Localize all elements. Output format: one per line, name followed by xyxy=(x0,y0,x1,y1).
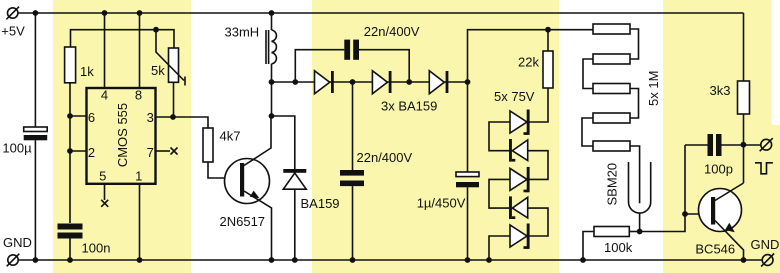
diode D2 BA159 xyxy=(372,71,391,94)
wire 5k bottom to pin3 xyxy=(173,82,175,117)
node D1-D2 xyxy=(350,79,356,85)
svg-text:3: 3 xyxy=(147,110,154,125)
wire pin8 xyxy=(139,13,141,88)
svg-text:+5V: +5V xyxy=(1,23,25,38)
capacitor C 100p xyxy=(708,134,722,156)
wire HV diode line xyxy=(272,81,468,83)
highlight band 1 (555 section) xyxy=(53,0,191,273)
resistor R7 1M xyxy=(593,54,630,64)
wire pin7 stub xyxy=(156,150,171,152)
terminal output xyxy=(760,138,773,151)
capacitor C 22n/400V smoothing xyxy=(340,170,364,186)
wire 22k bottom / zener right rail top xyxy=(530,88,549,122)
capacitor C 100n xyxy=(58,224,83,239)
zener D9 75V xyxy=(510,224,530,249)
node bottom zener rail xyxy=(486,257,492,263)
wire R9-R10 left link xyxy=(582,118,593,146)
wire pin1 xyxy=(139,184,141,260)
wire 100u top lead xyxy=(34,13,36,127)
capacitor C 22n/400V pump xyxy=(344,40,359,60)
wire top rail xyxy=(18,12,744,14)
svg-text:BC546: BC546 xyxy=(695,242,735,257)
wire 1u top lead xyxy=(467,82,469,172)
wire 22n2 bottom lead xyxy=(352,186,354,260)
svg-text:5k: 5k xyxy=(151,63,165,78)
resistor R 4k7 xyxy=(203,128,213,162)
svg-text:5x 75V: 5x 75V xyxy=(494,89,535,104)
node wiper xyxy=(153,27,159,33)
zener D5 75V xyxy=(510,110,530,135)
node top rail / pin8 xyxy=(137,10,143,16)
svg-text:1µ/450V: 1µ/450V xyxy=(417,196,466,211)
node bottom 22n xyxy=(350,257,356,263)
IC U1 CMOS 555 xyxy=(87,88,156,184)
highlight band 2 (HV multiplier section) xyxy=(312,0,559,273)
node bottom 100k xyxy=(580,257,586,263)
zener D6 75V xyxy=(509,139,528,162)
node 22k tap xyxy=(545,27,551,33)
svg-text:100k: 100k xyxy=(604,240,633,255)
node cap1 left tap xyxy=(292,79,298,85)
node pin3 xyxy=(170,114,176,120)
svg-text:4: 4 xyxy=(101,87,108,102)
svg-text:3k3: 3k3 xyxy=(710,83,731,98)
node bottom 1u xyxy=(465,257,471,263)
transistor Q2 BC546 xyxy=(699,183,744,260)
node bottom pin1 xyxy=(137,257,143,263)
svg-text:1: 1 xyxy=(135,169,142,184)
capacitor C 1u/450V electrolytic xyxy=(456,172,479,187)
wire zener right rail 2 xyxy=(528,151,548,180)
inductor L1 33mH xyxy=(266,13,276,82)
svg-text:100n: 100n xyxy=(82,240,111,255)
wire tube cathode lead xyxy=(639,213,641,231)
resistor R 22k xyxy=(543,51,553,88)
wire R10 to tube anode xyxy=(630,146,640,203)
wire pin2 xyxy=(70,150,87,152)
svg-text:2N6517: 2N6517 xyxy=(220,214,266,229)
wire multiplier output up and right xyxy=(468,30,594,82)
node bottom 100n xyxy=(67,257,73,263)
wire 1k/5k top link xyxy=(71,30,175,48)
wire pin5 stub xyxy=(104,184,106,200)
wire cathode to base tap xyxy=(640,145,685,232)
wire 4k7 to base xyxy=(208,162,240,178)
node bottom 100u xyxy=(33,257,39,263)
svg-text:2: 2 xyxy=(88,145,95,160)
node top rail / inductor xyxy=(269,10,275,16)
pin5 open cross xyxy=(101,200,108,207)
node pin6 xyxy=(67,113,73,119)
wire cathode to 100k xyxy=(629,231,639,233)
svg-text:3x BA159: 3x BA159 xyxy=(381,98,437,113)
wire 22k top lead xyxy=(547,30,549,51)
wire cap1 left tap xyxy=(295,50,344,82)
svg-text:4k7: 4k7 xyxy=(220,129,241,144)
zener D7 75V xyxy=(510,167,530,192)
wire 100p left lead xyxy=(685,144,708,146)
node D2-D3 xyxy=(406,79,412,85)
wire pin3 xyxy=(156,116,174,118)
node output xyxy=(741,142,747,148)
svg-text:33mH: 33mH xyxy=(225,25,260,40)
highlight band 3 (output section) xyxy=(663,0,772,273)
wire 3k3 top lead xyxy=(743,13,745,81)
wire zener left rail 2 xyxy=(489,179,510,208)
node base tap xyxy=(682,211,688,217)
wire cap1 right tap xyxy=(359,50,409,82)
svg-text:100p: 100p xyxy=(704,161,733,176)
wire node to shunt diode xyxy=(272,116,295,169)
zener D8 75V xyxy=(509,196,528,219)
wire 1k bottom rail to 100n xyxy=(69,83,71,223)
trimmer wiper arm xyxy=(156,30,185,86)
wire pin4 xyxy=(104,13,106,88)
svg-text:6: 6 xyxy=(88,110,95,125)
svg-text:22n/400V: 22n/400V xyxy=(357,150,413,165)
terminal +5V xyxy=(6,7,19,20)
resistor R9 1M xyxy=(593,113,630,123)
transistor Q1 2N6517 xyxy=(225,116,272,260)
wire shunt diode bottom xyxy=(294,189,296,260)
geiger tube SBM20 envelope xyxy=(629,162,651,213)
wire pin6 xyxy=(70,115,87,117)
wire bottom rail xyxy=(18,259,762,261)
svg-text:BA159: BA159 xyxy=(301,196,340,211)
pulse symbol xyxy=(755,163,773,174)
wire 3k3 bottom lead xyxy=(743,114,745,183)
svg-text:8: 8 xyxy=(135,87,142,102)
svg-text:GND: GND xyxy=(3,235,32,250)
diode D4 BA159 shunt xyxy=(283,169,306,189)
wire 100u bottom lead xyxy=(34,140,36,260)
svg-text:5x 1M: 5x 1M xyxy=(646,71,661,106)
node bottom BA159 shunt xyxy=(292,257,298,263)
terminal GND left xyxy=(7,254,20,267)
wire 100p right lead xyxy=(722,144,761,146)
wire zener right rail 3 xyxy=(528,208,548,236)
wire 1u bottom lead xyxy=(467,187,469,260)
wire base tap to base xyxy=(685,213,711,215)
wire collector node vertical xyxy=(271,82,273,116)
diode D3 BA159 xyxy=(429,71,448,94)
pin7 open cross xyxy=(171,148,178,155)
node bottom emitter T2 xyxy=(741,257,747,263)
node inductor bottom xyxy=(269,79,275,85)
wire zener left rail 1 xyxy=(489,122,510,151)
node top rail / 100u xyxy=(33,10,39,16)
svg-text:22n/400V: 22n/400V xyxy=(364,24,420,39)
wire 100k left to ground xyxy=(583,232,594,261)
svg-text:SBM20: SBM20 xyxy=(604,163,619,206)
svg-text:CMOS 555: CMOS 555 xyxy=(115,103,130,167)
svg-text:22k: 22k xyxy=(518,55,539,70)
terminal GND right xyxy=(761,254,774,267)
resistor R8 1M xyxy=(593,84,630,94)
wire pin3 to 4k7 xyxy=(173,117,208,128)
resistor P1 5k trimmer xyxy=(169,48,179,82)
wire 100n bottom lead xyxy=(69,239,71,261)
svg-text:5: 5 xyxy=(99,169,106,184)
wire R7-R8 left link xyxy=(583,59,593,89)
svg-text:7: 7 xyxy=(147,145,154,160)
resistor R1 1k xyxy=(65,47,76,83)
resistor R6 1M xyxy=(593,24,630,34)
svg-text:100µ: 100µ xyxy=(2,141,32,156)
node multiplier output xyxy=(465,79,471,85)
wire R8-R9 right link xyxy=(630,89,639,119)
node tube cathode xyxy=(637,229,643,235)
node pin2 xyxy=(67,148,73,154)
wire 22n2 top lead xyxy=(352,82,354,170)
svg-text:1k: 1k xyxy=(80,64,94,79)
node top rail / pin4 xyxy=(102,10,108,16)
resistor R12 3k3 xyxy=(738,81,750,114)
node bottom emitter T1 xyxy=(269,257,275,263)
svg-text:GND: GND xyxy=(751,237,780,252)
wire zener left rail 3 xyxy=(489,236,510,260)
capacitor C 100u electrolytic xyxy=(24,127,48,140)
diode D1 BA159 xyxy=(315,71,334,94)
resistor R10 1M xyxy=(593,141,630,151)
resistor R11 100k xyxy=(594,227,629,237)
wire R6-R7 right link xyxy=(630,29,639,59)
node collector xyxy=(269,113,275,119)
